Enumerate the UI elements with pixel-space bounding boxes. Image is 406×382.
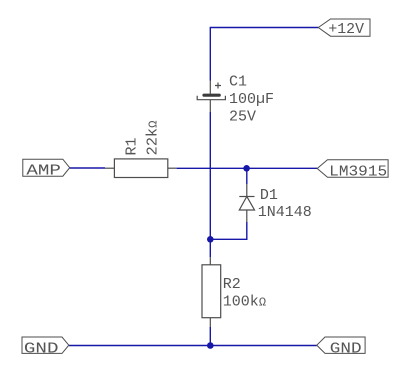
svg-text:D1: D1 — [260, 187, 278, 204]
wire +12V net: tag to corner and down to C1 — [210, 28, 318, 81]
svg-text:25V: 25V — [229, 108, 256, 125]
svg-text:C1: C1 — [229, 73, 247, 90]
svg-text:R1: R1 — [124, 137, 141, 155]
svg-text:+12V: +12V — [328, 21, 364, 38]
net tag LM3915 — [317, 160, 388, 181]
svg-text:22kΩ: 22kΩ — [144, 121, 161, 156]
wire AMP to R1 — [70, 167, 105, 169]
node B junction dot — [207, 236, 214, 243]
svg-text:1N4148: 1N4148 — [258, 204, 312, 221]
svg-text:LM3915: LM3915 — [329, 164, 387, 181]
label D1 value — [258, 187, 312, 221]
label R2 value — [223, 276, 266, 311]
ground tag GND (left) — [22, 337, 69, 357]
label R1 value (rotated) — [124, 121, 162, 156]
svg-text:GND: GND — [24, 340, 59, 357]
wire R1 to LM3915 tag — [177, 167, 318, 169]
svg-text:AMP: AMP — [26, 163, 61, 180]
wire GND rail (bottom) — [69, 345, 317, 347]
resistor R1 — [105, 159, 177, 178]
wire R2 to GND rail — [209, 327, 211, 346]
wire node B to R2 — [209, 239, 211, 257]
resistor R2 — [202, 257, 221, 327]
diode D1 — [239, 184, 254, 222]
node A junction dot — [243, 165, 250, 172]
svg-text:100kΩ: 100kΩ — [223, 293, 266, 310]
svg-text:R2: R2 — [223, 276, 241, 293]
wire node A down to D1 — [246, 168, 248, 184]
svg-text:GND: GND — [330, 340, 362, 357]
power tag +12V — [318, 19, 370, 38]
svg-text:100µF: 100µF — [229, 91, 274, 108]
wire C1 to node A (vertical trunk) — [209, 112, 211, 239]
wire D1 to node B — [210, 222, 247, 239]
node GND junction dot — [207, 342, 214, 349]
capacitor C1 — [197, 81, 225, 113]
net tag AMP — [23, 159, 70, 179]
ground tag GND (right) — [317, 337, 365, 357]
label C1 value — [229, 73, 274, 125]
